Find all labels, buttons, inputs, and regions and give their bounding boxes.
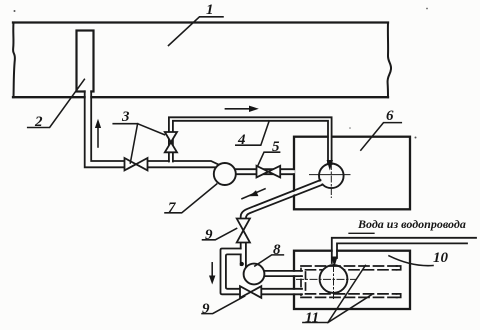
tank heater circle in box 10 bbox=[320, 265, 348, 293]
wire: valve 9b outlet into tank 10 (white undercoat) bbox=[261, 290, 301, 294]
storage tank box 10 bbox=[294, 251, 410, 309]
wire: cold water supply pipe from right into tank circle (double line) bbox=[332, 238, 476, 263]
label 4 leader bbox=[236, 121, 269, 145]
wire: pump 7 outlet through valve 5 into box 6 (double line) bbox=[236, 168, 294, 170]
pump 8 (hot water pump circle) bbox=[244, 264, 265, 285]
svg-text:8: 8 bbox=[273, 242, 281, 258]
coil 11 inner dashed lines bbox=[306, 269, 397, 271]
furnace duct 1 left wavy edge bbox=[13, 23, 15, 98]
centerline vertical of heater circle (dash-dot) bbox=[330, 164, 332, 198]
coil 11 right U-bend top bbox=[397, 266, 401, 270]
wire: bypass branch + hot pipe 4 (white undercoat) bbox=[171, 119, 330, 163]
label 3 leader bbox=[113, 124, 137, 163]
label 6 leader bbox=[361, 123, 402, 151]
wire: riser pipe from drum 2 down to main line (double line) bbox=[85, 91, 125, 167]
svg-text:6: 6 bbox=[386, 108, 394, 124]
arrow: supply arrowhead into tank circle bbox=[331, 257, 337, 268]
wire: valve 9b outlet into tank 10 (double line) bbox=[261, 288, 302, 290]
svg-text:5: 5 bbox=[272, 139, 280, 155]
svg-text:10: 10 bbox=[433, 250, 449, 266]
svg-text:9: 9 bbox=[205, 227, 213, 243]
valve 9b (bowtie on bypass return) bbox=[240, 286, 251, 298]
wire: cold water supply pipe (white undercoat) bbox=[334, 239, 466, 243]
junction blob at pump 8 inlet bbox=[240, 262, 244, 266]
svg-text:3: 3 bbox=[121, 109, 130, 125]
arrow: flow direction above pipe 4 bbox=[225, 108, 252, 110]
furnace duct 1 right wavy edge bbox=[388, 23, 392, 98]
valve 3a (gate valve on main pipe, bowtie) bbox=[125, 158, 137, 170]
svg-text:11: 11 bbox=[305, 310, 319, 326]
wire: pump 7 outlet to box 6 (white undercoat) bbox=[235, 170, 293, 173]
underline below note text bbox=[349, 232, 374, 234]
wire: pump 8 outlet into tank 10 (double line) bbox=[264, 270, 302, 272]
wire: riser pipe from drum 2 + main pipe (white undercoat) bbox=[88, 91, 216, 164]
coil 11 left inner dashed vertical bbox=[305, 272, 307, 291]
wire: bypass loop left-down-right (white undercoat) bbox=[223, 251, 241, 291]
boiler drum 2 (rectangle in duct) bbox=[77, 31, 94, 92]
label 11 leaders bbox=[303, 265, 366, 322]
speck marks from scan bbox=[14, 10, 16, 12]
wire: bypass loop left-down-right (double line) bbox=[221, 249, 241, 295]
label 2 leader bbox=[28, 79, 85, 127]
wire: diagonal pipe from heater (white undercoat) bbox=[243, 182, 321, 213]
arrow: flow direction up beside riser bbox=[97, 126, 99, 147]
svg-text:4: 4 bbox=[237, 132, 246, 148]
svg-text:1: 1 bbox=[206, 2, 214, 18]
centerline horizontal of tank circle (dash-dot) bbox=[297, 278, 356, 280]
label 9a leader bbox=[203, 228, 237, 239]
label 9b leader bbox=[202, 296, 245, 313]
arrow: pipe 4 arrowhead into heater circle bbox=[327, 160, 333, 171]
label 7 leader bbox=[165, 184, 217, 213]
heater coil circle in box 6 bbox=[319, 164, 344, 189]
wire: branch riser through valve 3b and pipe 4 to heater (double line) bbox=[169, 117, 332, 164]
wire: diagonal pipe from heater down to valve 9a (double line) bbox=[241, 180, 321, 219]
wire: main pipe from valve 3a to pump 7 (double line) bbox=[148, 161, 221, 166]
wire: pump 8 outlet into tank 10 (white undercoat) bbox=[264, 272, 301, 275]
svg-text:7: 7 bbox=[168, 200, 176, 216]
furnace duct 1 top edge bbox=[13, 21, 388, 23]
label 5 leader bbox=[258, 152, 280, 166]
valve 5 (bowtie before heater box 6) bbox=[257, 166, 269, 178]
svg-text:9: 9 bbox=[202, 301, 210, 317]
arrow: flow direction beside diagonal pipe bbox=[242, 189, 265, 199]
svg-text:Вода из водопровода: Вода из водопровода bbox=[357, 217, 466, 231]
svg-text:2: 2 bbox=[34, 114, 43, 130]
label 1 leader bbox=[169, 17, 224, 46]
centerline horizontal of heater circle bbox=[310, 174, 351, 176]
coil 11 outer dashed lines bbox=[301, 265, 397, 267]
furnace duct 1 bottom edge bbox=[13, 96, 388, 98]
valve 3b (vertical gate valve on bypass, hourglass) bbox=[165, 132, 177, 142]
centerline vertical of tank circle (dash-dot) bbox=[333, 265, 335, 299]
label 10 leader bbox=[389, 256, 433, 266]
coil 11 right U-bend bottom bbox=[397, 294, 401, 298]
coil 11 left outer dashed vertical bbox=[300, 269, 302, 296]
wire: downcomer below valve 9a into pump 8 (double line) bbox=[240, 243, 242, 266]
label 8 leader bbox=[255, 255, 284, 266]
pump 7 (circulation pump circle) bbox=[214, 163, 236, 185]
heat exchanger box 6 bbox=[294, 137, 410, 210]
valve 9a (vertical hourglass on downcomer) bbox=[237, 219, 250, 231]
arrow: flow direction beside bypass loop bbox=[211, 263, 213, 278]
